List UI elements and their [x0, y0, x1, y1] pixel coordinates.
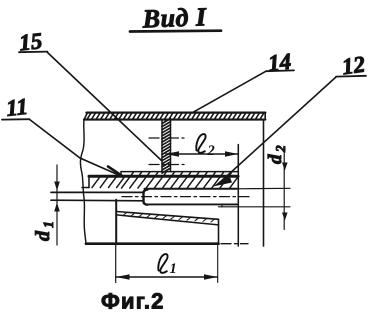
- dimension d1 lower arrow: [54, 203, 60, 212]
- svg-text:1: 1: [170, 261, 177, 277]
- dimension d1 upper arrow: [54, 182, 60, 191]
- flange 11 hatching: [92, 172, 238, 188]
- web hole centerline lower: [149, 164, 184, 166]
- plate 14 hatching: [87, 113, 264, 119]
- plate 14 right end edge: [264, 113, 266, 120]
- dimension d2 line: [283, 149, 285, 230]
- dimension l1 right arrow: [204, 274, 218, 279]
- leader 11: [30, 119, 123, 176]
- web 15 right edge: [170, 120, 172, 172]
- axis centerline: [122, 196, 251, 198]
- web 15 left edge: [161, 120, 163, 172]
- cone right edge: [218, 219, 220, 243]
- label 14 underline: [266, 69, 294, 72]
- tube top edge: [51, 191, 143, 193]
- dimension d2 lower arrow: [282, 213, 288, 221]
- cone upper taper line: [117, 212, 219, 220]
- dimension l1 label: [158, 254, 176, 277]
- web 15 hatching: [162, 119, 171, 174]
- label 12 underline: [336, 75, 366, 78]
- d2 upper extension line: [237, 187, 290, 190]
- dimension l2 left arrow: [166, 151, 180, 156]
- flange lip top edge: [121, 171, 238, 173]
- svg-text:d: d: [265, 154, 286, 164]
- leader 14: [193, 71, 266, 112]
- dimension d2 upper arrow: [282, 163, 288, 171]
- dimension d2 label: [265, 145, 288, 164]
- left break line (wavy): [80, 120, 86, 244]
- sleeve 12 bore closed left end cap: [144, 190, 148, 205]
- leader 15: [48, 53, 163, 162]
- label 11 underline: [2, 118, 30, 120]
- svg-text:d: d: [32, 230, 54, 241]
- dimension d1 line: [56, 165, 58, 245]
- leader 12: [218, 77, 336, 184]
- flange lip left edge: [120, 172, 122, 177]
- cone lower taper line: [117, 215, 219, 225]
- body bottom edge: [86, 242, 219, 245]
- svg-text:Фиг.2: Фиг.2: [101, 289, 165, 314]
- tube bottom edge: [51, 199, 143, 202]
- plate 14 left end edge: [84, 113, 88, 120]
- right tube outer wall left: [237, 145, 239, 247]
- dimension l2 line: [166, 153, 238, 155]
- bore step vertical edge: [221, 204, 223, 206]
- dimension l1 right extension: [217, 244, 219, 283]
- flange 11 lower-left notch edge: [82, 187, 89, 189]
- dimension l1 left extension: [115, 244, 117, 283]
- sleeve 12 bore top edge: [145, 188, 238, 190]
- dimension l1 left arrow: [116, 274, 130, 279]
- label 15 underline: [19, 51, 48, 54]
- plate 14 bottom edge: [84, 119, 265, 121]
- plate 14 top edge: [87, 111, 266, 113]
- leader 12 arrowhead: [213, 175, 232, 187]
- dimension l2 label: [196, 134, 214, 159]
- svg-text:2: 2: [207, 143, 215, 159]
- cone left edge: [115, 200, 117, 244]
- dimension l2 right arrow: [225, 151, 238, 156]
- right tube outer wall right: [263, 121, 265, 246]
- svg-text:Вид I: Вид I: [141, 2, 207, 33]
- bottom centerline: [221, 243, 248, 245]
- title underline: [130, 29, 221, 32]
- svg-text:1: 1: [42, 221, 57, 228]
- bore step lower edge / d2 lower extension: [219, 206, 291, 208]
- web hole centerline upper: [149, 137, 184, 139]
- sleeve 12 bore bottom edge: [146, 203, 237, 205]
- cone taper hatching: [123, 212, 215, 222]
- dimension l1 line: [116, 276, 218, 278]
- flange 11 top edge: [89, 175, 238, 178]
- svg-text:11: 11: [5, 94, 29, 121]
- svg-text:2: 2: [273, 145, 288, 153]
- flange 11 left step edge: [88, 177, 90, 188]
- dimension d1 label: [32, 221, 57, 241]
